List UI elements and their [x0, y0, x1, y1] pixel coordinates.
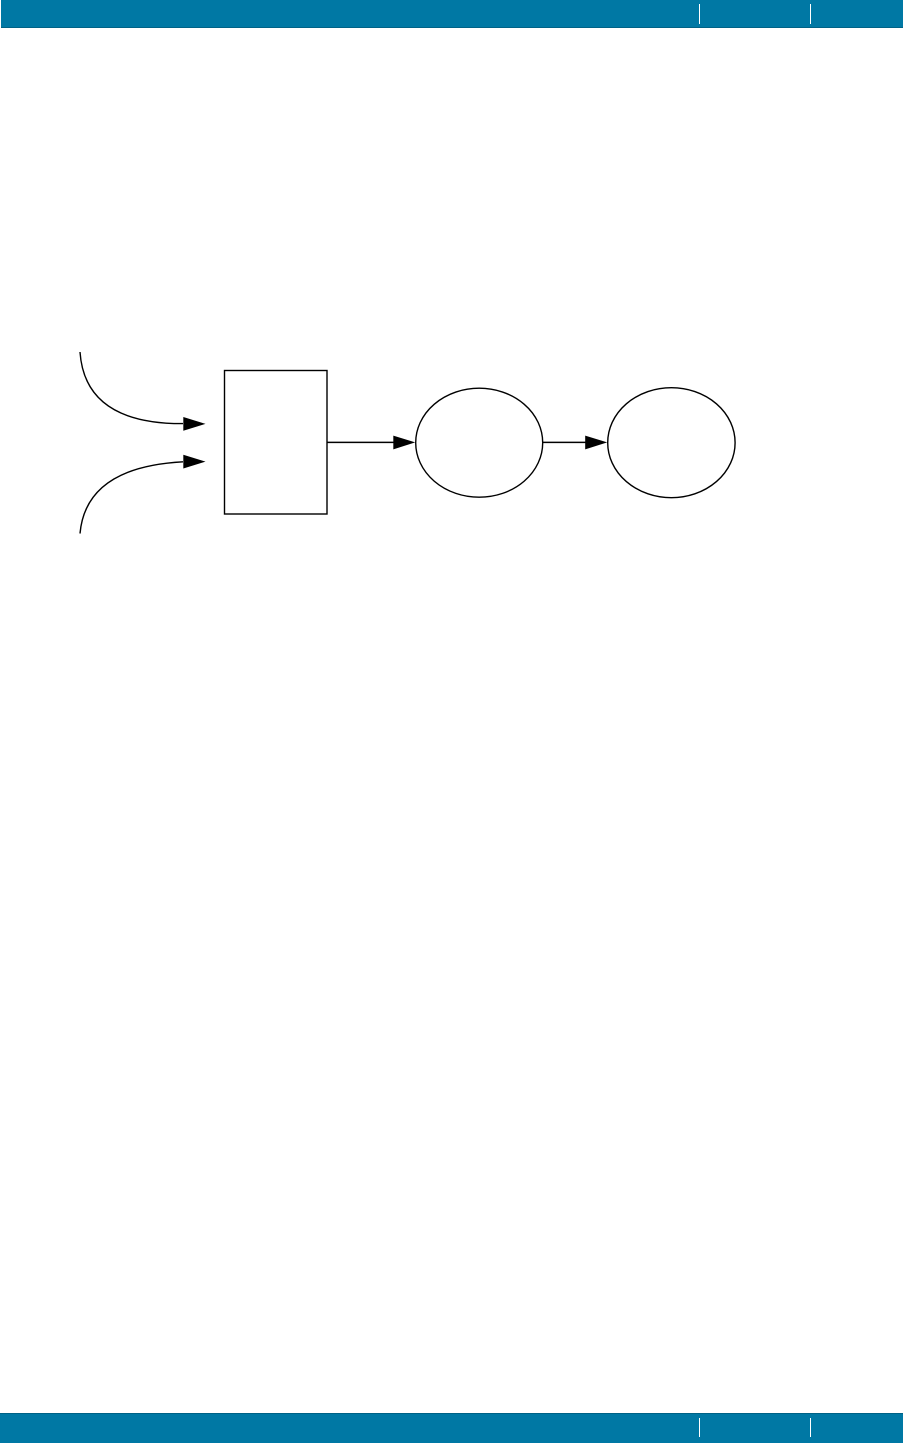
header bar: [1, 0, 903, 28]
state ellipse 2: [608, 388, 735, 498]
footer separator 2: [810, 1418, 811, 1437]
footer separator 1: [699, 1418, 700, 1437]
process box: [225, 371, 328, 515]
header separator 1: [699, 4, 700, 24]
input curve arrow 2 (lower): [80, 455, 206, 534]
footer bar: [0, 1413, 903, 1443]
state ellipse 1: [416, 388, 543, 497]
input curve arrow 1 (upper): [80, 352, 206, 431]
arrow ellipse 1 to ellipse 2: [543, 436, 608, 450]
arrow box to ellipse 1: [327, 436, 415, 450]
header separator 2: [810, 4, 811, 24]
